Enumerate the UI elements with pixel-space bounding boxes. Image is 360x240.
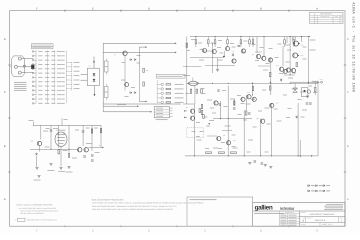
svg-text:Q6: Q6 [215,48,217,51]
svg-text:Q10: Q10 [233,139,236,142]
svg-text:1. ALL RESISTORS ARE 1/4W 5%,: 1. ALL RESISTORS ARE 1/4W 5%, UNLESS NOT… [18,207,57,210]
svg-text:F: F [36,230,38,233]
svg-text:DENOTES PART IS ON HEATSINK AS: DENOTES PART IS ON HEATSINK ASSY [27,219,58,222]
svg-text:206-0176-A: 206-0176-A [315,219,326,222]
svg-text:C: C [204,230,206,233]
svg-text:DATE: DATE [335,16,338,18]
svg-text:technology: technology [280,207,295,210]
svg-text:OUT: OUT [320,78,323,81]
svg-text:Q8: Q8 [223,134,225,137]
svg-text:Q5: Q5 [201,48,203,51]
svg-text:Q20: Q20 [31,140,34,143]
svg-text:Q16: Q16 [256,117,259,120]
svg-text:C: C [204,8,206,11]
svg-text:Q14: Q14 [301,54,304,57]
svg-text:NOTES: UNLESS OTHERWISE SPECIF: NOTES: UNLESS OTHERWISE SPECIFIED: [17,203,54,206]
svg-text:WITH POWER OFF, ADJUST POT TR5: WITH POWER OFF, ADJUST POT TR5 TO ITS FU… [92,202,205,205]
svg-text:DESCRIPTION: DESCRIPTION [321,16,330,18]
svg-text:E: E [92,8,94,11]
svg-text:TURN POT CLOCKWISE UNTIL THE O: TURN POT CLOCKWISE UNTIL THE OUTPUT CURR… [92,208,174,211]
svg-text:4100 MOSFET POWER AMP: 4100 MOSFET POWER AMP [310,213,335,216]
svg-text:C: C [4,91,6,94]
svg-text:Q3: Q3 [186,106,188,109]
svg-text:BY: BY [341,16,343,18]
svg-text:gallien: gallien [255,204,273,211]
svg-text:ECN HISTORY: ECN HISTORY [320,12,332,15]
svg-text:B: B [260,230,262,233]
svg-text:Q7: Q7 [233,50,235,53]
svg-text:D: D [4,38,6,41]
svg-text:2.: 2. [15,219,17,222]
svg-text:R8: R8 [146,69,148,72]
svg-text:U1: U1 [89,65,91,68]
svg-text:Q11: Q11 [276,64,279,67]
svg-text:B: B [4,145,6,148]
svg-text:D: D [148,230,150,233]
svg-text:Q15: Q15 [276,102,279,105]
svg-text:A: A [316,230,318,233]
svg-text:DWG NO: DWG NO [307,217,312,219]
svg-text:D: D [347,38,349,41]
svg-text:A: A [341,220,343,223]
svg-text:SHEET 1 OF 2: SHEET 1 OF 2 [322,223,333,226]
svg-text:Q12: Q12 [247,91,250,94]
svg-text:TITLE: TITLE [301,211,305,214]
svg-text:SCALE: SCALE [301,224,306,226]
svg-text:BIAS ADJUSTMENT PROCEDURE:: BIAS ADJUSTMENT PROCEDURE: [92,198,125,201]
svg-text:Q9: Q9 [252,53,254,56]
svg-text:A: A [312,16,313,18]
svg-text:F: F [36,8,38,11]
svg-text:Q13: Q13 [301,44,304,47]
svg-text:B: B [303,220,305,223]
svg-text:REV: REV [340,217,343,219]
svg-text:TURN ON POWER AND WAIT A MINIM: TURN ON POWER AND WAIT A MINIMUM OF 2 MI… [92,205,178,208]
svg-text:A: A [4,198,6,201]
svg-text:B: B [260,8,262,11]
svg-text:B: B [347,145,349,148]
svg-text:D: D [148,8,150,11]
svg-text:A: A [316,8,318,11]
svg-text:C: C [347,91,349,94]
svg-text:+15: +15 [98,144,101,147]
svg-text:E: E [92,230,94,233]
svg-text:Q1: Q1 [114,53,116,56]
svg-text:A: A [347,198,349,201]
